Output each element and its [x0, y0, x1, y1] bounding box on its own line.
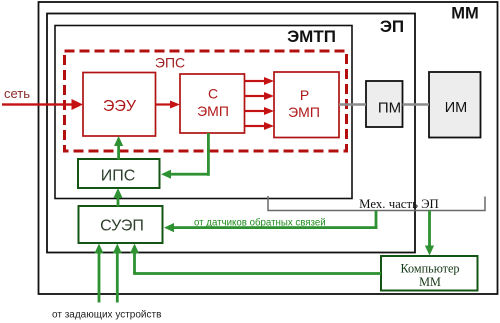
svg-text:ЭМП: ЭМП — [197, 103, 229, 119]
box EP — [47, 14, 415, 253]
svg-text:ЭП: ЭП — [380, 17, 404, 36]
svg-text:ЭМП: ЭМП — [288, 104, 320, 120]
wire arrow set to EEU — [2, 99, 83, 110]
svg-text:ИПС: ИПС — [101, 168, 136, 185]
box IM — [429, 72, 481, 138]
wire green feedback from bracket to SUEP — [164, 211, 377, 233]
svg-text:ЭПС: ЭПС — [155, 55, 185, 71]
svg-text:Р: Р — [300, 87, 309, 103]
wire green arrow SUEP to IPS — [113, 188, 122, 207]
wire gray PM to IM — [403, 103, 430, 105]
box S EMP — [180, 74, 245, 133]
svg-text:сеть: сеть — [4, 86, 30, 101]
svg-text:ПМ: ПМ — [378, 100, 401, 117]
svg-text:ЭЭУ: ЭЭУ — [103, 98, 137, 115]
svg-text:С: С — [208, 86, 218, 102]
svg-text:ММ: ММ — [451, 5, 479, 23]
wire arrow S EMP to R EMP 1 — [245, 77, 275, 85]
box EMTP — [55, 26, 352, 199]
wire green bottom arrow 2 — [113, 244, 122, 303]
bracket mech part EP — [268, 196, 485, 211]
wire arrow EEU to S EMP — [156, 101, 181, 109]
wire green computer to SUEP elbow — [130, 244, 381, 275]
svg-text:Мех. часть ЭП: Мех. часть ЭП — [359, 197, 439, 211]
box SUEP — [79, 206, 163, 243]
wire green arrow IPS to EEU — [114, 136, 123, 160]
box PM — [366, 81, 403, 127]
wire green bottom arrow 1 — [94, 244, 103, 303]
svg-text:СУЭП: СУЭП — [100, 218, 144, 235]
wire arrow S EMP to R EMP 4 — [245, 122, 275, 130]
svg-text:от датчиков обратных связей: от датчиков обратных связей — [194, 218, 326, 229]
wire green S EMP down elbow to IPS — [161, 133, 210, 179]
wire arrow S EMP to R EMP 2 — [245, 92, 275, 100]
wire gray R EMP to PM — [339, 103, 366, 105]
box R EMP — [274, 72, 339, 138]
dashed box EPS — [65, 51, 347, 151]
wire green arrow bracket to computer — [425, 211, 434, 256]
svg-text:ММ: ММ — [419, 275, 441, 289]
box computer MM — [381, 256, 478, 291]
svg-text:ЭМТП: ЭМТП — [287, 27, 336, 46]
box EEU — [83, 73, 156, 137]
box IPS — [78, 159, 160, 188]
wire arrow S EMP to R EMP 3 — [245, 107, 275, 115]
svg-text:от задающих устройств: от задающих устройств — [52, 310, 161, 321]
svg-text:ИМ: ИМ — [445, 100, 468, 116]
svg-text:Компьютер: Компьютер — [401, 262, 460, 276]
